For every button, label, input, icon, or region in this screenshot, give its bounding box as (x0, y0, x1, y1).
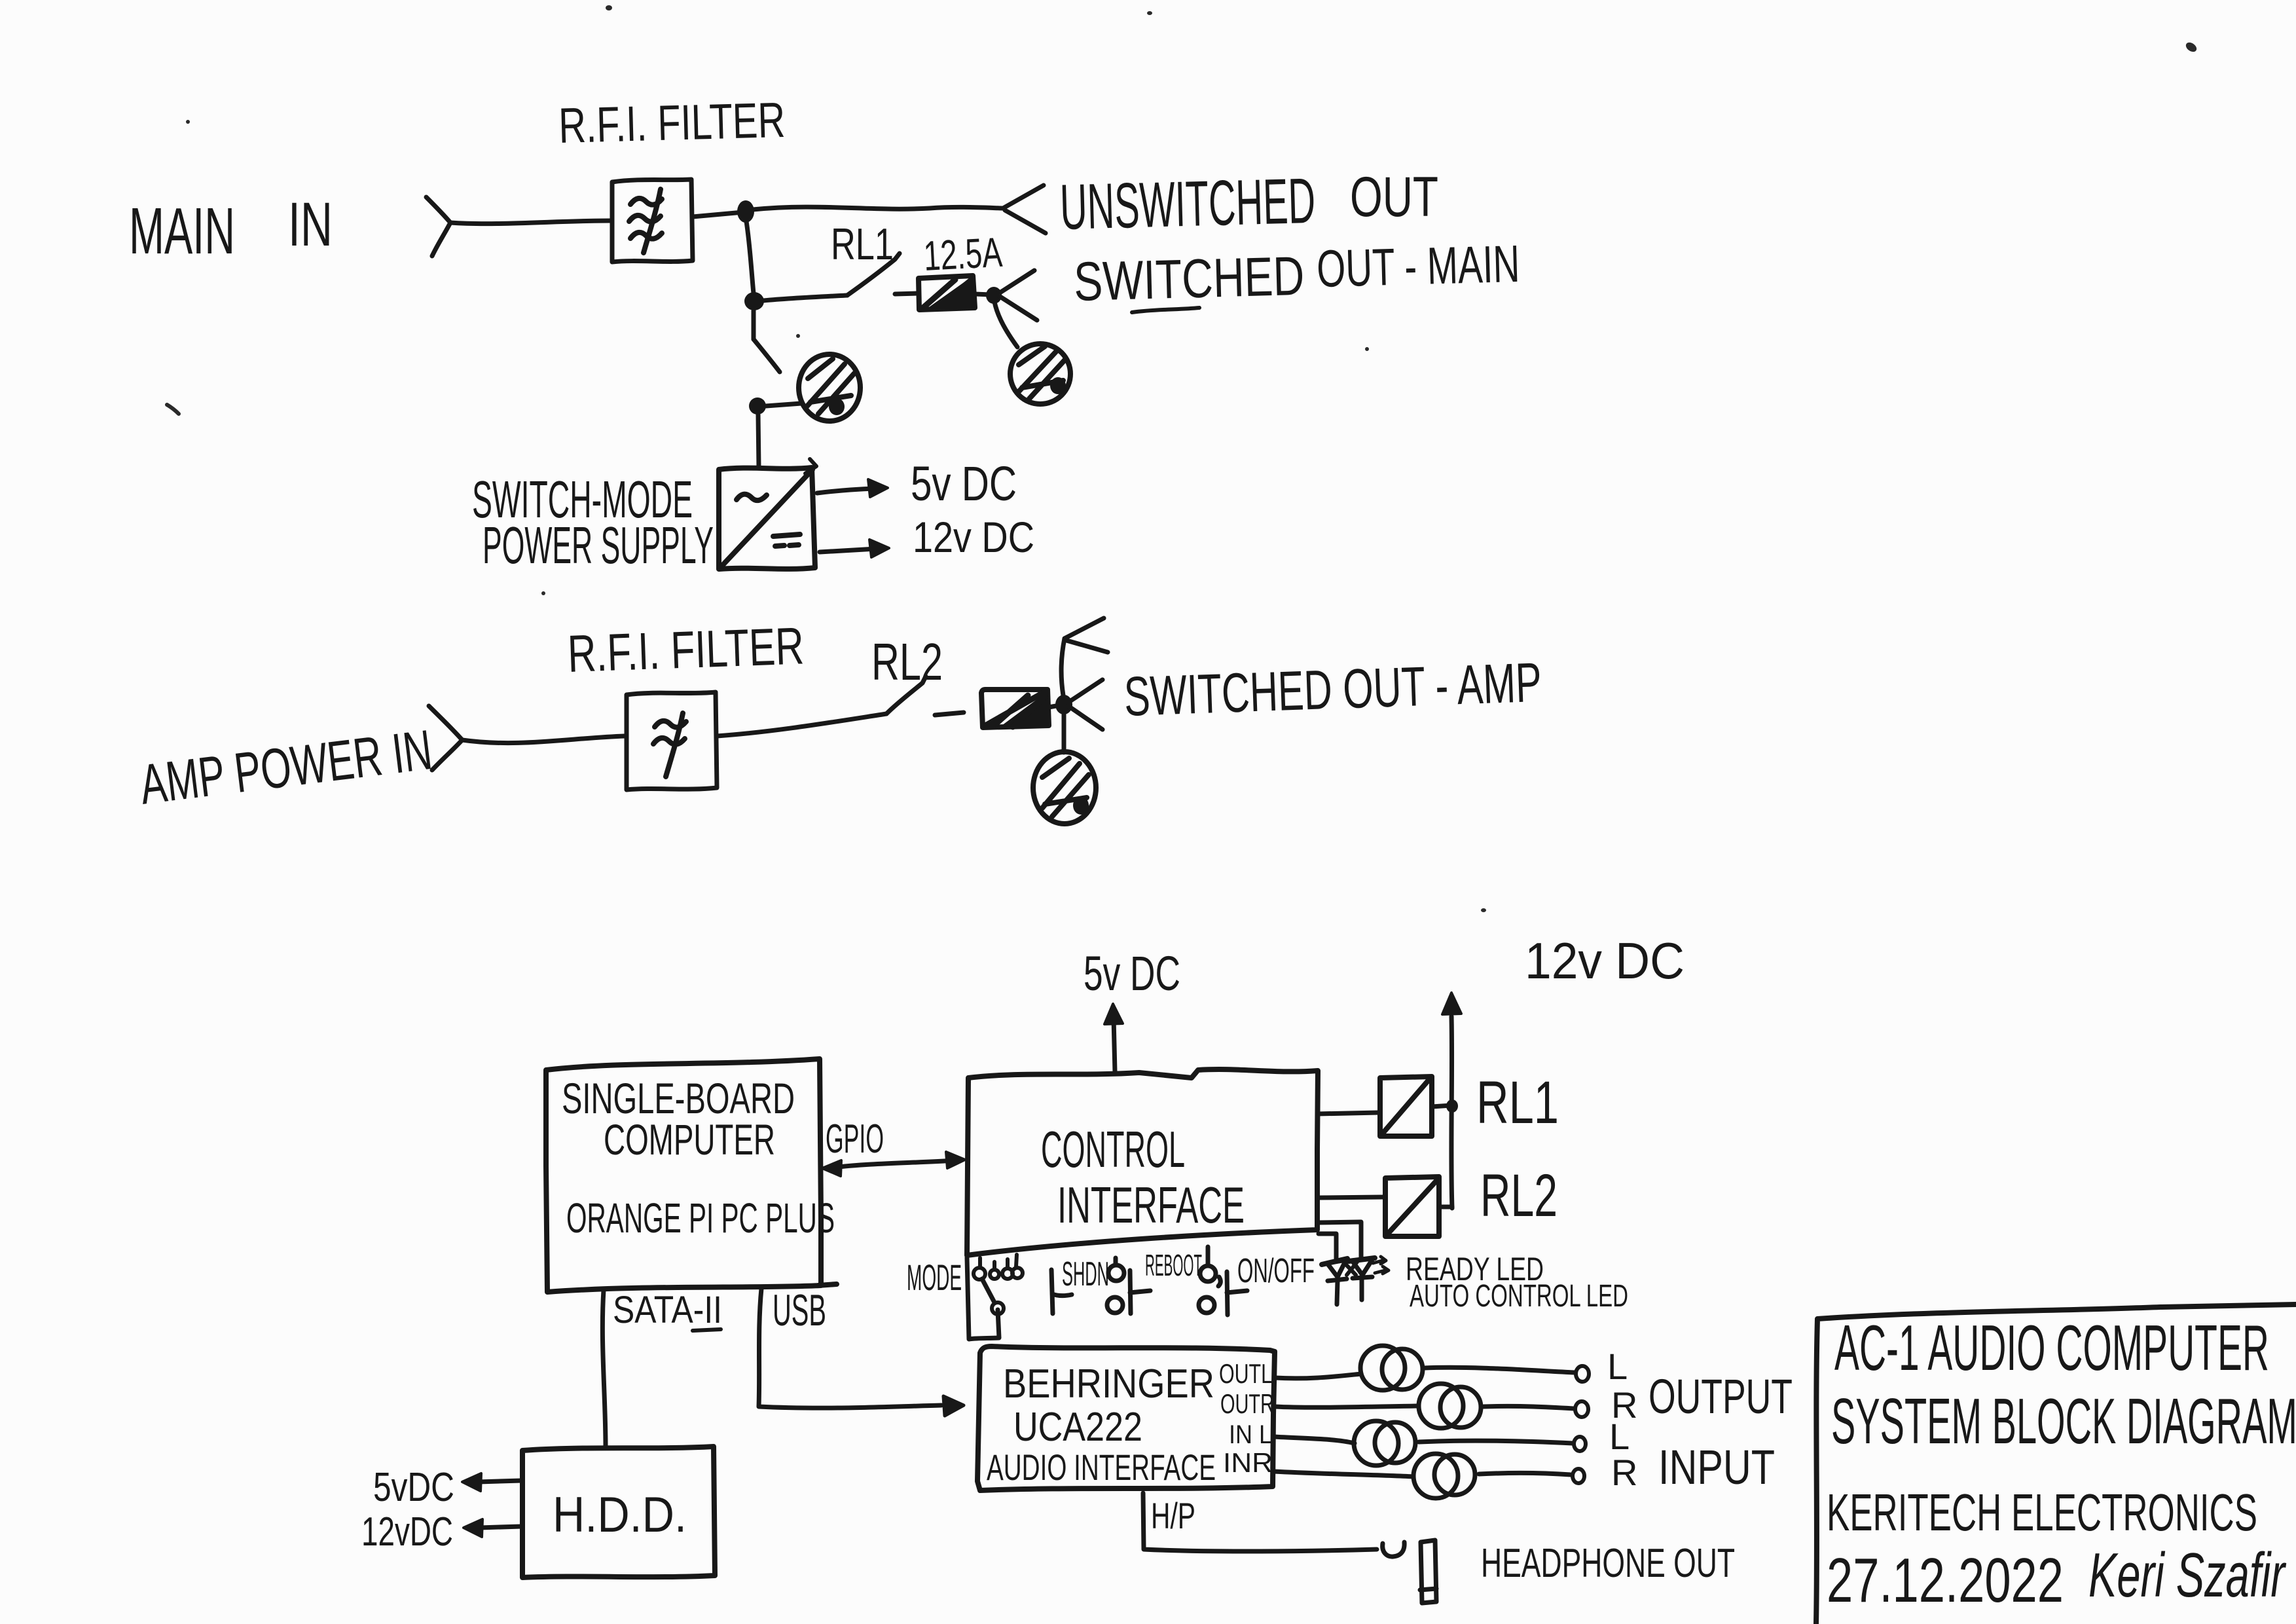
svg-text:POWER SUPPLY: POWER SUPPLY (483, 516, 714, 574)
svg-text:IN: IN (288, 190, 333, 259)
svg-text:R.F.I. FILTER: R.F.I. FILTER (558, 92, 786, 154)
svg-text:SATA-II: SATA-II (613, 1289, 722, 1331)
svg-text:CONTROL: CONTROL (1041, 1120, 1185, 1178)
svg-text:SYSTEM BLOCK DIAGRAM: SYSTEM BLOCK DIAGRAM (1831, 1385, 2296, 1457)
svg-text:12v DC: 12v DC (1525, 932, 1685, 989)
arrow HDD 12V (464, 1519, 521, 1537)
svg-text:REBOOT: REBOOT (1145, 1248, 1202, 1282)
svg-text:27.12.2022: 27.12.2022 (1827, 1545, 2064, 1615)
relay coil RL2 (1385, 1177, 1439, 1236)
wire INR to transformer T4 (1273, 1471, 1413, 1477)
svg-text:IN L: IN L (1229, 1420, 1272, 1449)
text MAIN IN (129, 190, 333, 268)
neon lamp NE1 (799, 354, 860, 421)
relay contact RL2 switch arm (886, 676, 926, 714)
RFI filter FL2 (627, 692, 717, 790)
relay contact RL1 switch arm (847, 253, 900, 295)
wire U2 to relay coil RL1 (1317, 1113, 1379, 1114)
svg-text:UCA222: UCA222 (1013, 1405, 1142, 1450)
svg-text:KERITECH ELECTRONICS: KERITECH ELECTRONICS (1827, 1483, 2257, 1541)
wire U2 to LED D1 (1319, 1234, 1336, 1259)
wire T3 to input L terminal (1419, 1441, 1573, 1443)
wire MAIN IN to RFI filter FL1 (450, 221, 611, 224)
paper speckles (167, 5, 2198, 912)
svg-text:AUTO CONTROL LED: AUTO CONTROL LED (1410, 1279, 1628, 1314)
GPIO bus double arrow (822, 1152, 965, 1176)
HDD box (522, 1447, 715, 1578)
wire T4 to input R terminal (1479, 1473, 1571, 1475)
svg-text:RL2: RL2 (871, 633, 943, 691)
node C junction dot (986, 287, 1002, 304)
wire OUTR to transformer T2 (1274, 1406, 1419, 1407)
svg-text:H/P: H/P (1151, 1495, 1195, 1536)
svg-text:R.F.I. FILTER: R.F.I. FILTER (566, 616, 805, 683)
terminal R OUTPUT (1575, 1401, 1588, 1417)
svg-text:COMPUTER: COMPUTER (604, 1115, 775, 1164)
wire USB SBC to Behringer (759, 1289, 964, 1416)
wire 12V DC rail with arrow (1442, 993, 1461, 1208)
arrow 12V DC from SMPS (820, 540, 889, 557)
transformer T4 (1413, 1454, 1475, 1498)
control interface U2 box (967, 1069, 1318, 1255)
terminal R INPUT (1573, 1469, 1584, 1483)
wire FL2 to relay contact RL2 (717, 714, 886, 736)
svg-text:UNSWITCHED: UNSWITCHED (1059, 164, 1317, 243)
svg-text:BEHRINGER: BEHRINGER (1003, 1361, 1214, 1407)
arrow 5V DC supply to control interface (1104, 1004, 1123, 1072)
svg-text:5vDC: 5vDC (373, 1465, 454, 1510)
pushbutton REBOOT (1199, 1247, 1247, 1315)
wire node D to neon lamp NE1 (766, 403, 801, 406)
svg-text:OUTL: OUTL (1219, 1358, 1272, 1389)
headphone jack symbol (1420, 1540, 1436, 1603)
wire FL1 to node A (693, 212, 743, 217)
MODE selector switch SW1 (967, 1255, 1072, 1339)
transformer T3 (1354, 1421, 1415, 1466)
svg-text:INR: INR (1223, 1447, 1273, 1478)
terminal L OUTPUT (1576, 1366, 1589, 1382)
svg-text:5v DC: 5v DC (911, 456, 1017, 511)
svg-text:USB: USB (773, 1285, 826, 1335)
svg-text:Keri Szafir: Keri Szafir (2088, 1540, 2287, 1610)
svg-text:AC-1 AUDIO COMPUTER: AC-1 AUDIO COMPUTER (1834, 1312, 2269, 1384)
node B junction dot (744, 292, 764, 310)
svg-text:OUT - MAIN: OUT - MAIN (1316, 234, 1520, 298)
text SWITCHED OUT - MAIN (1073, 234, 1520, 312)
wire U2 to relay coil RL2 (1320, 1197, 1384, 1198)
wire node D to SMPS input (758, 415, 759, 468)
arrow HDD 5V (462, 1473, 521, 1491)
terminal L INPUT (1574, 1437, 1586, 1451)
svg-text:12v DC: 12v DC (913, 513, 1034, 561)
node D junction dot (749, 397, 766, 415)
svg-text:GPIO: GPIO (826, 1116, 884, 1162)
transformer T2 (1419, 1384, 1481, 1428)
svg-text:MODE: MODE (907, 1257, 962, 1298)
text SATA-II (613, 1289, 722, 1331)
wire RL2 coil to 12V rail (1439, 1205, 1452, 1209)
pushbutton SHDN (1107, 1258, 1150, 1314)
wire node A to unswitched connector (753, 207, 1003, 210)
arrow 5V DC from SMPS (817, 479, 888, 497)
connector SWITCHED OUT - MAIN (998, 270, 1037, 320)
svg-text:L: L (1607, 1346, 1628, 1387)
underline under SWITCHED (1132, 308, 1199, 312)
text UNSWITCHED OUT (1059, 164, 1438, 243)
transformer T1 (1360, 1346, 1423, 1390)
LED emission arrows (1373, 1257, 1389, 1274)
wire node C to neon lamp NE2 (994, 302, 1017, 347)
svg-text:R: R (1611, 1452, 1637, 1493)
svg-text:OUT: OUT (1350, 166, 1438, 229)
fuse F2 (981, 690, 1056, 728)
neon lamp NE2 (1010, 344, 1070, 404)
wire node A to node B (746, 221, 754, 293)
RFI filter FL1 (612, 179, 693, 262)
headphone jack hook (1383, 1542, 1404, 1557)
connector SWITCHED OUT - AMP upper (1065, 618, 1108, 652)
svg-text:INTERFACE: INTERFACE (1057, 1176, 1245, 1234)
connector SWITCHED OUT - AMP lower (1068, 680, 1102, 729)
relay coil RL1 (1380, 1077, 1432, 1136)
wire OUTL to transformer T1 (1275, 1374, 1361, 1378)
wire node E to neon lamp NE3 (1062, 714, 1066, 752)
node A junction dot (737, 200, 754, 223)
svg-text:SWITCHED: SWITCHED (1073, 245, 1305, 312)
svg-text:RL2: RL2 (1480, 1162, 1558, 1229)
svg-text:MAIN: MAIN (129, 194, 235, 268)
connector J2 AMP POWER IN (429, 706, 462, 770)
svg-text:RL1: RL1 (1476, 1069, 1559, 1136)
svg-text:ON/OFF: ON/OFF (1237, 1252, 1315, 1290)
svg-text:SHDN: SHDN (1062, 1255, 1109, 1293)
wire J2 to RFI filter FL2 (462, 736, 625, 743)
svg-text:HEADPHONE OUT: HEADPHONE OUT (1481, 1541, 1735, 1586)
svg-text:OUTPUT: OUTPUT (1649, 1369, 1793, 1424)
svg-text:12vDC: 12vDC (361, 1509, 453, 1555)
wire T1 to output L terminal (1425, 1367, 1575, 1373)
wire node B to relay contact RL1 (763, 295, 847, 301)
LED D2 AUTO CONTROL (1344, 1258, 1375, 1300)
svg-text:H.D.D.: H.D.D. (553, 1487, 687, 1543)
title block frame (1816, 1304, 2296, 1624)
connector UNSWITCHED OUT (1003, 185, 1046, 233)
connector J1 MAIN IN (426, 197, 450, 256)
wire RL1 coil to 12V rail (1432, 1105, 1451, 1107)
node RL1/12V junction dot (1446, 1099, 1458, 1113)
behringer UCA222 box (977, 1346, 1275, 1490)
neon lamp NE3 (1033, 752, 1096, 824)
wire T2 to output R terminal (1484, 1406, 1574, 1409)
wire node E up to upper connector (1061, 638, 1065, 695)
svg-text:AUDIO INTERFACE: AUDIO INTERFACE (987, 1447, 1216, 1488)
SMPS PS1 (719, 459, 816, 569)
wire H/P headphone out (1143, 1493, 1377, 1551)
svg-text:RL1: RL1 (831, 219, 894, 269)
svg-text:INPUT: INPUT (1658, 1440, 1775, 1494)
wire node B down to switch S1 (752, 310, 756, 339)
wire U2 to LED D2 (1319, 1222, 1361, 1259)
svg-text:L: L (1609, 1416, 1630, 1457)
fuse F1 (895, 276, 991, 310)
wire stub to fuse F2 (935, 712, 964, 715)
svg-text:ORANGE PI PC PLUS: ORANGE PI PC PLUS (566, 1194, 835, 1242)
node E junction dot (1055, 695, 1072, 714)
wire SATA-II SBC to HDD (602, 1290, 606, 1447)
svg-text:12.5A: 12.5A (922, 229, 1004, 280)
svg-text:OUTR: OUTR (1220, 1388, 1274, 1419)
LED D1 READY (1322, 1259, 1347, 1304)
single-board computer U1 box (546, 1059, 821, 1292)
switch S1 arm (754, 339, 780, 372)
svg-text:5v DC: 5v DC (1084, 946, 1180, 1001)
wire IN L to transformer T3 (1273, 1437, 1355, 1443)
